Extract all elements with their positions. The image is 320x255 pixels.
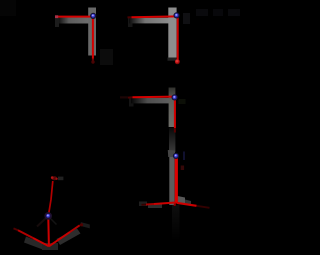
- fog smudge right of N2: [183, 13, 190, 24]
- bond trident center leg: [47, 217, 50, 246]
- atom N5 halo: [44, 212, 52, 220]
- fog smudge top right 3: [228, 9, 240, 16]
- stick N vertical middle: [169, 88, 176, 128]
- bond fade-in top-right horizontal: [128, 16, 132, 18]
- atom N1: [91, 14, 95, 18]
- stick near trident vertex: [42, 243, 58, 250]
- atom O2 pair blob: [51, 176, 57, 180]
- stick C-N horizontal middle: [131, 98, 172, 103]
- fog right of O2 pair: [58, 177, 63, 181]
- atom O2 left lobe: [51, 176, 54, 179]
- bond top-right vertical: [177, 17, 179, 61]
- bond fade tail left arm of T: [142, 203, 149, 205]
- fog column below T junction: [172, 205, 180, 241]
- bond fade tip middle vertical: [174, 128, 176, 133]
- bond fade-in middle horizontal: [128, 96, 133, 98]
- stick right arm of T: [178, 196, 186, 205]
- stick right arm of T tail: [185, 200, 191, 207]
- atom O1: [175, 59, 180, 64]
- stick C-N horizontal top-left: [56, 17, 93, 23]
- bond top-left vertical: [92, 17, 94, 59]
- fog patch mid left: [100, 49, 113, 65]
- fog ray lower-left of N5: [37, 218, 46, 227]
- bond O2 to N5 upper: [49, 181, 53, 215]
- fog band left of O1: [168, 58, 177, 61]
- fog beyond right trident tip: [81, 222, 90, 228]
- bond trident left arm mid: [18, 230, 33, 238]
- fog smudge right of N3: [179, 99, 186, 104]
- atom N2: [175, 13, 179, 17]
- atom N1 halo: [90, 13, 96, 19]
- bond top-right horizontal: [132, 15, 177, 18]
- bond stub below T junction: [174, 203, 177, 206]
- bond left arm of T: [154, 203, 176, 205]
- fog stub below left end top-left: [55, 18, 59, 27]
- fog stub below left end middle: [129, 99, 134, 107]
- atom O2 right lobe: [56, 178, 58, 180]
- fog stick left arm of T 2: [148, 204, 162, 208]
- atom N5: [46, 214, 50, 218]
- fog tick dark blue right of N4: [183, 152, 185, 161]
- fog stub below left end top-right: [128, 18, 133, 27]
- fog smudge top right: [196, 9, 208, 16]
- bond right arm of T: [177, 203, 197, 206]
- fog stick left arm of T: [139, 202, 147, 207]
- bond left arm of T mid: [146, 203, 154, 206]
- stick left arm of trident: [24, 237, 46, 251]
- atom N2 halo: [174, 12, 180, 18]
- bond fade tail right arm of T: [197, 206, 210, 208]
- stick N vertical bottom-right: [169, 157, 174, 205]
- fogged tip of trident right arm: [80, 223, 83, 226]
- bond fade tip top-left vertical: [92, 59, 94, 64]
- bond lower-right vertical thick: [175, 158, 178, 204]
- bond fade-in trident left arm: [14, 228, 19, 230]
- bond middle vertical: [174, 98, 176, 129]
- bond trident right arm: [49, 232, 70, 246]
- bond top-left horizontal: [56, 16, 94, 18]
- atom N3 halo: [172, 94, 178, 100]
- fog column between middle and lower N: [169, 128, 175, 152]
- stick right arm of trident: [57, 229, 81, 246]
- fog smudge dark red right of bond: [181, 166, 184, 171]
- fog ray right of N5: [50, 218, 57, 225]
- bond middle horizontal: [133, 96, 175, 99]
- bond trident left arm: [33, 238, 49, 246]
- atom N3: [173, 95, 177, 99]
- faint corner patch: [0, 0, 16, 16]
- fog smudge top right 2: [213, 9, 223, 16]
- atom N4 halo: [173, 153, 179, 159]
- stick N vertical top-right: [168, 8, 176, 58]
- fogged atom tip left end: [55, 15, 58, 18]
- bond trident right arm tip: [70, 225, 80, 232]
- fog haze before middle horizontal: [120, 96, 128, 98]
- atom N4: [174, 154, 178, 158]
- stick N vertical top-left: [88, 8, 96, 56]
- fogged tip blob top-left vertical: [91, 60, 94, 63]
- stick C-N horizontal top-right: [129, 18, 175, 24]
- fogged stick upper-left of N4: [168, 150, 175, 157]
